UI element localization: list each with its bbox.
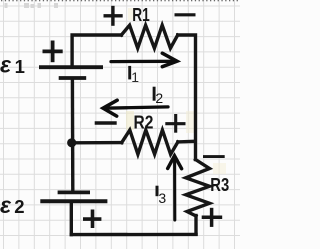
resistor R3 xyxy=(186,160,210,217)
svg-text:1: 1 xyxy=(131,69,139,85)
plus sign R2 right xyxy=(165,114,185,133)
node junction dot xyxy=(67,138,76,147)
plus sign E2 xyxy=(83,210,101,229)
svg-text:ε: ε xyxy=(0,52,12,78)
plus sign R1 left xyxy=(104,6,123,26)
svg-text:ε: ε xyxy=(0,192,12,218)
wire R2 to right vertical xyxy=(178,140,195,144)
battery E1 xyxy=(39,67,103,78)
svg-text:2: 2 xyxy=(14,196,24,217)
wire bottom-left vertical up to battery E2 xyxy=(70,203,73,234)
svg-text:R3: R3 xyxy=(210,174,229,195)
wire bottom xyxy=(71,233,196,237)
resistor R1 xyxy=(121,25,177,48)
wire R3 bottom vertical xyxy=(194,216,197,235)
label I1 xyxy=(128,66,131,80)
wire top-right + right vertical down to R3 xyxy=(178,35,196,160)
plus sign E1 xyxy=(43,41,63,63)
svg-text:1: 1 xyxy=(15,56,25,77)
resistor R2 xyxy=(122,130,178,154)
plus sign R3 bottom xyxy=(202,208,223,227)
minus sign R3 top xyxy=(203,155,225,158)
current arrow I3 xyxy=(168,156,182,220)
svg-text:R1: R1 xyxy=(132,5,149,25)
svg-text:3: 3 xyxy=(158,190,166,206)
minus sign R1 right xyxy=(175,13,196,16)
svg-text:R2: R2 xyxy=(134,112,154,133)
minus sign R2 left xyxy=(95,121,117,124)
wire top-left: left vertical from battery E1 up to top-left corner xyxy=(72,35,121,66)
current arrow I2 xyxy=(103,100,168,116)
label I3 xyxy=(156,186,159,197)
battery E2 xyxy=(40,192,107,201)
wire battery E1 bottom to node to battery E2 top xyxy=(71,80,75,191)
svg-text:2: 2 xyxy=(155,90,163,106)
label I2 xyxy=(153,87,156,101)
current arrow I1 xyxy=(111,53,177,66)
wire node to R2 xyxy=(73,141,122,145)
